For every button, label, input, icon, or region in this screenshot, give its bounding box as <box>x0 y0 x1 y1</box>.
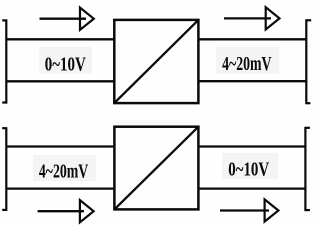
arrow A1 (top-left signal direction) <box>40 8 94 30</box>
label background row2 left <box>33 155 96 181</box>
label background row2 right <box>222 153 278 179</box>
svg-text:4~20mV: 4~20mV <box>222 53 272 75</box>
wire row1 left bottom <box>6 80 115 82</box>
label background row1 right <box>216 47 279 74</box>
arrow A2 (top-right signal direction) <box>224 7 280 29</box>
wire row2 right top <box>198 145 305 147</box>
wire row2 left bottom <box>6 187 115 189</box>
wire row2 right bottom <box>198 187 305 189</box>
converter U2 diagonal <box>114 127 198 210</box>
terminal bracket J4 (row2 right) <box>305 127 310 211</box>
arrow A4 (bottom-right signal direction) <box>220 199 278 221</box>
wire row2 left top <box>6 145 115 147</box>
wire row1 right bottom <box>198 80 306 82</box>
svg-text:0~10V: 0~10V <box>228 159 269 181</box>
converter U1 diagonal <box>114 20 198 103</box>
wire row1 left top <box>6 38 115 40</box>
terminal bracket J3 (row2 left) <box>2 127 6 211</box>
label background row1 left <box>39 47 92 74</box>
wire row1 right top <box>198 38 306 40</box>
terminal bracket J1 (row1 left) <box>2 19 6 103</box>
converter box U1 <box>114 20 198 103</box>
svg-text:0~10V: 0~10V <box>45 54 86 76</box>
arrow A3 (bottom-left signal direction) <box>38 200 94 222</box>
converter box U2 <box>114 127 198 210</box>
svg-text:4~20mV: 4~20mV <box>39 161 89 183</box>
terminal bracket J2 (row1 right) <box>306 19 311 104</box>
